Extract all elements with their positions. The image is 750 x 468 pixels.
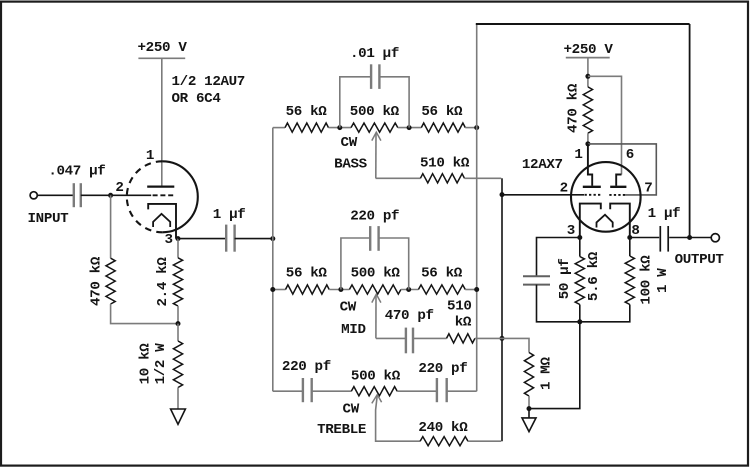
plate V2 left	[588, 144, 592, 186]
cathode V2 right	[610, 204, 630, 238]
bass wiper arrow	[372, 132, 381, 140]
capacitor 220pf treble left	[302, 378, 304, 402]
wire junction down	[110, 195, 112, 258]
svg-text:1: 1	[146, 148, 154, 164]
wire 100k down	[580, 305, 630, 322]
wire	[465, 289, 476, 291]
wire right gray rail	[476, 24, 478, 391]
node mid to rail	[474, 287, 479, 292]
resistor 510k mid	[447, 334, 475, 343]
power +250V bar (right)	[566, 57, 610, 59]
wire 2.4k down	[177, 306, 179, 324]
heater V2	[597, 215, 613, 228]
wire C1 to grid	[81, 194, 151, 196]
node input junction	[108, 193, 113, 198]
svg-text:INPUT: INPUT	[28, 211, 70, 227]
svg-text:2: 2	[115, 180, 123, 196]
svg-text:220 pf: 220 pf	[350, 209, 399, 225]
grid V2 right dashes	[609, 194, 625, 196]
wire grid to V2 pin2	[502, 194, 584, 196]
resistor 56k bass left	[285, 123, 329, 132]
svg-text:56 kΩ: 56 kΩ	[421, 265, 463, 281]
wire +250V to plate V1	[161, 58, 163, 186]
resistor 100k	[625, 256, 634, 305]
svg-text:10 kΩ: 10 kΩ	[138, 343, 154, 385]
wire +250V down	[587, 58, 589, 87]
resistor 470k grid	[106, 258, 115, 304]
svg-text:56 kΩ: 56 kΩ	[286, 265, 328, 281]
wire treble left corner	[273, 390, 303, 392]
wire	[329, 127, 352, 129]
svg-text:510 kΩ: 510 kΩ	[420, 156, 470, 172]
wire bass wiper	[376, 177, 421, 179]
ground V1 cathode	[171, 409, 186, 424]
svg-text:BASS: BASS	[334, 157, 367, 173]
node cathode bottom	[176, 321, 181, 326]
resistor 56k bass right	[421, 123, 465, 132]
resistor 56k mid left	[286, 285, 330, 294]
svg-text:MID: MID	[341, 322, 366, 338]
tube V1 envelope dashed left arc	[127, 161, 163, 232]
svg-text:500 kΩ: 500 kΩ	[350, 104, 400, 120]
wire to ground symbol	[528, 409, 530, 418]
svg-text:kΩ: kΩ	[455, 315, 472, 331]
wire +250 to pin6 plate	[588, 76, 622, 174]
svg-text:CW: CW	[340, 300, 357, 316]
resistor 2.4k cathode	[173, 258, 182, 306]
wire	[312, 390, 352, 392]
node mid right	[406, 287, 411, 292]
resistor 510k bass	[420, 174, 464, 183]
wire to 10k	[177, 324, 179, 341]
potentiometer 500k mid	[349, 285, 401, 294]
input terminal	[30, 192, 37, 199]
resistor 10k	[173, 341, 182, 388]
wire 1M to ground	[528, 396, 530, 409]
heater V1	[153, 214, 170, 227]
node pin8 V2	[627, 235, 632, 240]
node left rail C2	[270, 236, 275, 241]
wire 5.6k down	[579, 305, 581, 322]
wire left rail	[272, 128, 274, 392]
svg-text:2.4 kΩ: 2.4 kΩ	[155, 257, 171, 307]
wire pin3 to C2	[178, 238, 226, 240]
tube V1 envelope solid right arc	[162, 161, 197, 232]
power +250V bar (left)	[138, 57, 185, 59]
wire C470 to 510k	[413, 337, 447, 339]
node +250 branch	[585, 74, 590, 79]
treble wiper arrow	[372, 395, 382, 404]
capacitor C1 .047uf	[73, 183, 75, 207]
svg-text:CW: CW	[343, 401, 360, 417]
wire mid line left	[273, 289, 286, 291]
svg-text:+250 V: +250 V	[564, 42, 614, 58]
svg-text:50 µf: 50 µf	[557, 258, 573, 299]
wire 50uf down	[537, 285, 580, 322]
svg-text:240 kΩ: 240 kΩ	[418, 420, 468, 436]
capacitor .01uf plates	[370, 64, 372, 89]
wire pin3 to 5.6k	[579, 238, 581, 257]
wire 510k to grid rail	[465, 177, 502, 179]
capacitor 220pf mid plates	[369, 226, 371, 251]
wire pin1 to pin7	[588, 144, 656, 195]
capacitor 220pf treble right	[436, 378, 438, 402]
output terminal	[711, 234, 719, 242]
node output rail	[687, 235, 692, 240]
svg-text:1 W: 1 W	[655, 268, 671, 293]
resistor 470k plate V2	[583, 87, 592, 133]
node mid left rail	[270, 287, 275, 292]
svg-text:3: 3	[165, 232, 173, 248]
svg-text:100 kΩ: 100 kΩ	[639, 255, 655, 305]
svg-text:220 pf: 220 pf	[282, 359, 331, 375]
node cathode V1 pin3	[176, 236, 181, 241]
svg-text:.01 µf: .01 µf	[350, 46, 399, 62]
wire	[397, 390, 437, 392]
wire bass line left	[273, 127, 285, 129]
node cathode net	[577, 319, 582, 324]
wire grid rail vertical	[501, 195, 503, 442]
wire mid wiper to C470	[376, 337, 406, 339]
svg-text:.047 µf: .047 µf	[48, 164, 105, 180]
node plate V2 pin1	[585, 141, 590, 146]
svg-text:500 kΩ: 500 kΩ	[351, 369, 401, 385]
wire top feedback line	[476, 23, 690, 25]
mid wiper arrow	[372, 294, 381, 302]
potentiometer 500k bass	[351, 123, 398, 132]
svg-text:470 kΩ: 470 kΩ	[88, 256, 104, 306]
wire rail to 1M	[502, 338, 529, 352]
resistor 56k mid right	[418, 285, 465, 294]
svg-text:56 kΩ: 56 kΩ	[286, 104, 328, 120]
wire	[329, 289, 349, 291]
wire C4 to output	[669, 237, 711, 239]
node mid feed	[500, 336, 505, 341]
svg-text:1/2 W: 1/2 W	[153, 343, 169, 385]
wire	[465, 127, 476, 129]
ground V2	[522, 418, 536, 432]
svg-text:7: 7	[644, 181, 652, 197]
svg-text:470 kΩ: 470 kΩ	[565, 83, 581, 133]
resistor 240k treble	[420, 437, 468, 446]
svg-text:CW: CW	[341, 135, 358, 151]
svg-text:OR 6C4: OR 6C4	[172, 91, 222, 107]
svg-text:2: 2	[560, 181, 568, 197]
svg-text:6: 6	[626, 147, 634, 163]
wire cathode net to ground	[529, 322, 580, 409]
wire output rail	[689, 24, 691, 238]
capacitor 220pf mid loop	[341, 238, 370, 290]
svg-text:510: 510	[447, 299, 472, 315]
svg-text:1/2 12AU7: 1/2 12AU7	[172, 74, 245, 90]
svg-text:220 pf: 220 pf	[418, 361, 467, 377]
resistor 5.6k	[575, 257, 584, 305]
node grid V2	[500, 192, 505, 197]
cathode V2 left	[580, 204, 601, 238]
node ground 1M	[527, 406, 532, 411]
plate V1	[147, 185, 174, 187]
capacitor C2 1uf	[225, 225, 227, 252]
node bass left	[337, 125, 342, 130]
svg-text:1 MΩ: 1 MΩ	[539, 357, 555, 390]
svg-text:470 pf: 470 pf	[385, 308, 434, 324]
svg-text:OUTPUT: OUTPUT	[675, 252, 725, 268]
wire	[401, 289, 419, 291]
wire input to C1	[37, 194, 73, 196]
wire pin3 to 50uf	[537, 238, 580, 277]
wire 470k to rail	[111, 304, 178, 324]
svg-text:1 µf: 1 µf	[213, 207, 246, 223]
wire pin8 to 100k	[629, 238, 631, 257]
capacitor 50uf	[523, 275, 550, 277]
node mid left	[338, 287, 343, 292]
wire treble right	[447, 390, 477, 392]
wire C2 to left rail	[235, 238, 273, 240]
svg-text:8: 8	[631, 223, 639, 239]
wire pin3 to 2.4k	[177, 239, 179, 258]
svg-text:12AX7: 12AX7	[522, 157, 563, 173]
wire 470k to pin1	[587, 133, 589, 144]
node pin3 V2	[577, 235, 582, 240]
capacitor .01uf loop	[340, 77, 371, 128]
capacitor 470pf	[405, 328, 407, 354]
plate V2 right	[616, 175, 621, 186]
tube V2 envelope	[571, 162, 641, 232]
wire 10k to ground	[177, 388, 179, 410]
svg-text:+250 V: +250 V	[138, 40, 188, 56]
grid V1 dashes	[153, 194, 175, 196]
svg-text:1 µf: 1 µf	[648, 206, 681, 222]
capacitor C4 1uf out	[659, 226, 661, 252]
svg-text:5.6 kΩ: 5.6 kΩ	[586, 251, 602, 301]
potentiometer 500k treble	[351, 387, 397, 396]
svg-text:3: 3	[567, 223, 575, 239]
wire 510k mid to rail	[475, 337, 502, 339]
node bass to rail	[474, 125, 479, 130]
cathode V1	[148, 204, 176, 239]
grid V2 left dashes	[585, 194, 602, 196]
wire	[398, 127, 422, 129]
svg-text:56 kΩ: 56 kΩ	[421, 104, 463, 120]
wire 240k to grid rail	[468, 440, 501, 442]
svg-text:1: 1	[574, 147, 582, 163]
wire pin8 to C4	[630, 237, 659, 239]
resistor 1M	[524, 353, 533, 397]
svg-text:500 kΩ: 500 kΩ	[351, 265, 401, 281]
svg-text:TREBLE: TREBLE	[317, 422, 366, 438]
node bass right	[407, 125, 412, 130]
